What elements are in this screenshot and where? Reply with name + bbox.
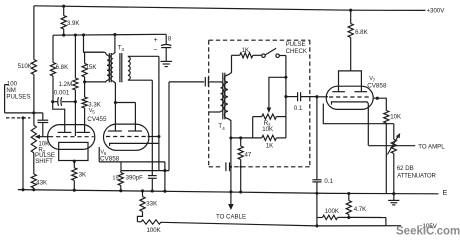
wire cathode tap to T4 xyxy=(169,81,204,83)
resistor 510K xyxy=(31,60,36,75)
resistor 10K right xyxy=(384,111,389,124)
wire tertiary top to V6 grid xyxy=(128,55,159,57)
svg-text:CHECK: CHECK xyxy=(286,48,307,55)
wire input bracket xyxy=(4,85,6,113)
tube V7 plate box xyxy=(339,71,362,92)
svg-text:−: − xyxy=(153,47,157,54)
transformer T3 tertiary winding xyxy=(128,57,130,80)
wire 33K to -105V rail xyxy=(137,212,142,222)
capacitor in shield line xyxy=(225,162,227,171)
node V7 grid junction xyxy=(315,95,318,98)
wire bottom ground bus xyxy=(18,190,439,194)
node bus dot cathode branch xyxy=(163,190,166,193)
wire bus2 branch to T3 primary top xyxy=(84,35,105,52)
svg-text:6.8K: 6.8K xyxy=(355,29,368,36)
wire TO AMPL line xyxy=(368,145,415,147)
wire R3 box sides xyxy=(252,117,254,138)
svg-text:CV858: CV858 xyxy=(367,82,387,89)
node bus dot 47 branch xyxy=(239,190,242,193)
wire corner down to rail xyxy=(385,218,387,226)
svg-text:43K: 43K xyxy=(36,179,47,186)
node bus dot 390pF xyxy=(151,189,154,192)
node bus2 dot at T3 center tap xyxy=(113,33,116,36)
potentiometer R3 10K xyxy=(253,116,262,118)
svg-text:+300V: +300V xyxy=(427,8,446,15)
capacitor input coupling xyxy=(42,113,44,120)
svg-text:SHIFT: SHIFT xyxy=(35,158,53,165)
tube V5 left plate xyxy=(58,131,72,133)
node bus dot 0.1 output cap xyxy=(315,192,318,195)
transformer T4 core xyxy=(222,73,224,120)
node bus dot 33K xyxy=(141,189,144,192)
transformer T3 core left pair xyxy=(108,53,110,82)
resistor 47 xyxy=(240,138,242,146)
node input junction xyxy=(32,111,35,114)
node bus2 dot at 3.9K xyxy=(62,34,65,37)
wire -105V rail xyxy=(137,221,141,223)
transformer T3 primary winding xyxy=(84,51,106,53)
resistor 6.8K right xyxy=(350,10,352,23)
wire T4 primary bottom to shield xyxy=(209,111,221,113)
transformer T4 primary xyxy=(221,82,224,111)
tube V6 left plate xyxy=(108,130,122,132)
svg-text:E: E xyxy=(443,190,448,197)
node 0.001 line left junction xyxy=(51,100,54,103)
node bus2 dot at 15K branch xyxy=(82,33,85,36)
node bus2 dot at 1.2M xyxy=(74,33,77,36)
resistor 1.2M xyxy=(74,35,76,78)
ground for 8uF xyxy=(161,60,172,62)
node V7 right edge junction xyxy=(376,97,379,100)
wire second bus (screen supply rail) xyxy=(53,33,166,36)
svg-text:3K: 3K xyxy=(79,171,86,178)
node bus dot input drop xyxy=(21,188,24,191)
svg-text:SeekIC.com: SeekIC.com xyxy=(396,226,460,238)
svg-text:4.7K: 4.7K xyxy=(354,206,367,213)
svg-text:100K: 100K xyxy=(147,227,161,234)
svg-text:TO CABLE: TO CABLE xyxy=(216,214,246,221)
tube V7 CV858 envelope xyxy=(326,86,373,109)
switch pulse check xyxy=(262,54,266,58)
wire R2 to 43K xyxy=(33,153,35,174)
resistor 1K (pulse check switch) xyxy=(232,54,240,56)
resistor 4.7K xyxy=(348,194,350,201)
capacitor 0.1 (pulse check output) xyxy=(286,96,298,98)
svg-text:6.8K: 6.8K xyxy=(56,64,69,71)
node pulse line junction xyxy=(21,116,24,119)
svg-text:0.001: 0.001 xyxy=(54,89,70,96)
node bus dot attenuator xyxy=(392,192,395,195)
wire V6 label box xyxy=(98,147,100,162)
wire V7 grid line into tube xyxy=(317,96,328,98)
svg-text:100K: 100K xyxy=(325,208,339,215)
svg-text:33K: 33K xyxy=(146,201,157,208)
wire cathode left loop xyxy=(323,104,394,124)
node top-bus junction at right 6.8K xyxy=(349,9,352,12)
wire tertiary bottom to 390pF branch xyxy=(128,79,152,81)
node 0.001 line right junction xyxy=(74,100,77,103)
wire pulse waveform dashed baseline xyxy=(6,117,31,119)
wire left rail from top bus xyxy=(33,6,35,60)
tube V6 CV858 envelope xyxy=(104,124,149,150)
wire -105V feed line xyxy=(317,217,323,219)
wire to 10K xyxy=(373,98,386,110)
svg-text:1.2M: 1.2M xyxy=(59,81,73,88)
tube V7 cathode xyxy=(332,102,369,145)
node top-bus junction at 3.9K xyxy=(62,5,65,8)
wire 1.2M junction down to V5 grid xyxy=(74,102,76,136)
wire 0.1 output vertical xyxy=(316,97,318,180)
wire 3.3K to V5 right plate xyxy=(84,108,86,132)
node V6 plate wire junction xyxy=(114,101,117,104)
node cathode 3K xyxy=(73,160,76,163)
svg-text:1K: 1K xyxy=(266,142,273,149)
resistor R 3.9K xyxy=(63,6,65,15)
wire jog to V5 left plate xyxy=(53,102,65,133)
wire switch right drop xyxy=(285,56,287,117)
wire bus2 corner to 6.8K xyxy=(52,35,54,62)
node T4 secondary bottom tee xyxy=(229,136,232,139)
transformer T3 core right pair xyxy=(119,53,121,82)
wire junction to T3 primary bottom xyxy=(85,81,107,83)
wire dashed bottom shield line xyxy=(209,166,223,168)
potentiometer 62DB attenuator xyxy=(393,124,395,140)
svg-text:3: 3 xyxy=(121,47,124,53)
resistor 15K xyxy=(84,52,86,63)
svg-text:CV455: CV455 xyxy=(87,116,107,123)
node bus dot 43K xyxy=(32,188,35,191)
capacitor coupling into pulse-check box xyxy=(204,77,206,87)
wire cathode net xyxy=(121,170,169,172)
svg-text:4: 4 xyxy=(222,126,225,132)
svg-text:47: 47 xyxy=(245,152,252,159)
capacitor 0.1 (output to bus) xyxy=(312,179,321,181)
capacitor 8uF electrolytic xyxy=(165,34,167,45)
svg-text:ATTENUATOR: ATTENUATOR xyxy=(397,173,436,180)
resistor 100K right xyxy=(323,215,338,219)
tube V5 grid (dashed) xyxy=(49,136,94,138)
node 4.7K bottom xyxy=(347,216,350,219)
wire left rail to input node xyxy=(33,75,35,126)
wire 0.1 node below bus to -105V rail xyxy=(316,193,318,226)
box pulse check (dashed shield) xyxy=(209,39,310,41)
node bus dot 4.7K xyxy=(347,192,350,195)
svg-text:10K: 10K xyxy=(262,126,273,133)
node shield crossing 47 branch xyxy=(240,166,242,168)
resistor 1K (R3 lower) xyxy=(231,137,262,139)
resistor 100K (left, in -105V rail) xyxy=(141,220,161,224)
wire V5 cathode lead xyxy=(73,161,75,168)
tube V6 cathode xyxy=(110,143,159,146)
potentiometer R2 10K PULSE SHIFT xyxy=(31,125,36,153)
node cathode net tee xyxy=(163,169,166,172)
svg-text:TO AMPL: TO AMPL xyxy=(418,143,445,150)
node rail junction xyxy=(315,224,318,227)
tube V5 right plate xyxy=(76,131,90,133)
svg-text:390pF: 390pF xyxy=(126,175,144,182)
svg-text:15: 15 xyxy=(112,176,118,182)
svg-text:3.9K: 3.9K xyxy=(67,20,80,27)
wire drop from pulse line to bottom bus xyxy=(22,118,24,190)
node bus dot 3K xyxy=(73,189,76,192)
svg-text:10K: 10K xyxy=(390,114,401,121)
wire V6 plate tie xyxy=(115,102,135,104)
capacitor 390pF xyxy=(148,175,157,177)
node bus dot T4 secondary drop xyxy=(229,190,232,193)
svg-text:+: + xyxy=(154,37,158,44)
resistor 43K xyxy=(31,174,36,188)
transformer T4 secondary xyxy=(228,55,232,75)
wire plate lead V7 xyxy=(350,38,352,71)
wire 10K to ground bus xyxy=(385,123,387,194)
tube V6 right plate xyxy=(128,130,142,132)
tube V5 cathode box xyxy=(59,142,88,160)
node shield crossing T4 drop xyxy=(230,166,232,168)
svg-text:0.1: 0.1 xyxy=(324,178,333,185)
node wiper tee xyxy=(284,76,287,79)
ground symbol right xyxy=(393,194,395,201)
resistor 3.3K xyxy=(84,82,86,97)
potentiometer R3 wiper arrow xyxy=(267,108,272,114)
svg-text:PULSES: PULSES xyxy=(6,94,30,101)
node 0.1 tee xyxy=(284,95,287,98)
wire TO CABLE arrow xyxy=(230,192,232,205)
resistor 33K xyxy=(142,191,144,197)
svg-text:1K: 1K xyxy=(242,47,249,54)
node V6 grid junction xyxy=(157,135,160,138)
wire 15ohm top stub xyxy=(120,162,122,171)
wire wiper line to V5 grid xyxy=(39,136,49,138)
svg-text:15K: 15K xyxy=(86,64,97,71)
node 15K/3.3K junction xyxy=(83,80,86,83)
tube V5 CV455 envelope xyxy=(48,125,95,150)
wire top +300V bus xyxy=(34,6,426,11)
wire input line xyxy=(5,112,43,114)
potentiometer R2 wiper arrow xyxy=(35,135,40,139)
node 47 tee xyxy=(239,136,242,139)
resistor 3K xyxy=(72,168,77,181)
svg-text:510K: 510K xyxy=(18,63,32,70)
resistor 6.8K left xyxy=(50,62,55,76)
wire R3 wiper xyxy=(269,77,286,108)
tube V7 plate bars xyxy=(332,91,345,93)
svg-text:62 DB: 62 DB xyxy=(397,165,414,172)
attenuator wiper arrow xyxy=(387,137,397,155)
resistor 15 ohm cathode xyxy=(120,171,122,173)
svg-text:0.1: 0.1 xyxy=(294,105,303,112)
tube V6 grid (dashed) xyxy=(106,136,148,138)
node bus dot 15ohm xyxy=(119,189,122,192)
transformer T3 secondary winding (to V6 plates) xyxy=(113,35,115,55)
